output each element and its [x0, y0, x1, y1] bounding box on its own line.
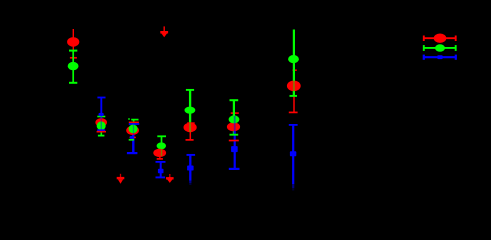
column 3: red bottom cap [130, 136, 136, 138]
column 6: red top cap [231, 112, 239, 114]
column 3: green bottom cap [129, 139, 134, 141]
column 7: green errorbar [288, 30, 299, 96]
column 5: green line overlay [189, 123, 191, 132]
column 3: blue line overlay [133, 124, 135, 136]
column 7: blue errorbar [289, 125, 298, 191]
column 2: blue errorbar [97, 98, 105, 131]
column 2: blue marker [99, 113, 104, 116]
column 7: red bottom cap [289, 111, 298, 113]
column 3: blue bottom cap [127, 152, 137, 154]
column 2: blue line overlay [100, 116, 102, 130]
column 2: green errorbar [97, 117, 106, 136]
column 1: red errorbar [67, 29, 79, 58]
column 3: green marker [129, 124, 138, 133]
column 6: red bottom cap [229, 140, 239, 142]
column 2: red bottom cap [97, 131, 106, 133]
red upper-limit arrow (x=169.8) [166, 174, 174, 183]
column 4: red marker [153, 149, 166, 157]
column 2: red marker [95, 118, 107, 127]
red upper-limit arrow (x=120.5) [117, 174, 125, 184]
column 4: blue errorbar [156, 162, 166, 178]
column 6: blue marker [231, 146, 238, 152]
legend: blue entry [424, 55, 456, 60]
column 4: green line overlay [161, 149, 163, 157]
column 6: blue bottom cap [229, 168, 240, 170]
column 5: red errorbar [184, 123, 197, 140]
column 7: red marker [287, 81, 301, 92]
column 7: green line overlay [290, 80, 298, 96]
column 3: blue errorbar [129, 124, 140, 153]
column 4: green errorbar [157, 136, 166, 150]
column 4: red bottom cap [157, 157, 163, 159]
column 6: green errorbar [230, 100, 239, 135]
column 3: green errorbar [131, 120, 138, 140]
column 5: green errorbar [185, 90, 196, 123]
column 3: red top cap [129, 121, 139, 123]
column 3: green dot artifact [128, 118, 130, 120]
column 3: blue marker [130, 136, 134, 139]
legend: red entry [424, 34, 456, 43]
column 6: blue line [234, 122, 236, 169]
column 2: green bottom cap [98, 135, 105, 137]
column 6: green marker [229, 115, 240, 123]
column 5: blue errorbar [187, 155, 196, 185]
column 7: red errorbar line [293, 70, 297, 112]
red upper-limit arrow (x=164, top) [160, 26, 168, 37]
column 1: green errorbar [68, 51, 79, 83]
column 2: blue bottom cap [97, 129, 105, 131]
legend: green entry [424, 44, 456, 51]
column 6: green bottom cap [230, 134, 239, 136]
column 6: blue line overlay [234, 116, 236, 132]
column 3: red marker [126, 126, 139, 135]
column 6: red marker [227, 122, 240, 131]
